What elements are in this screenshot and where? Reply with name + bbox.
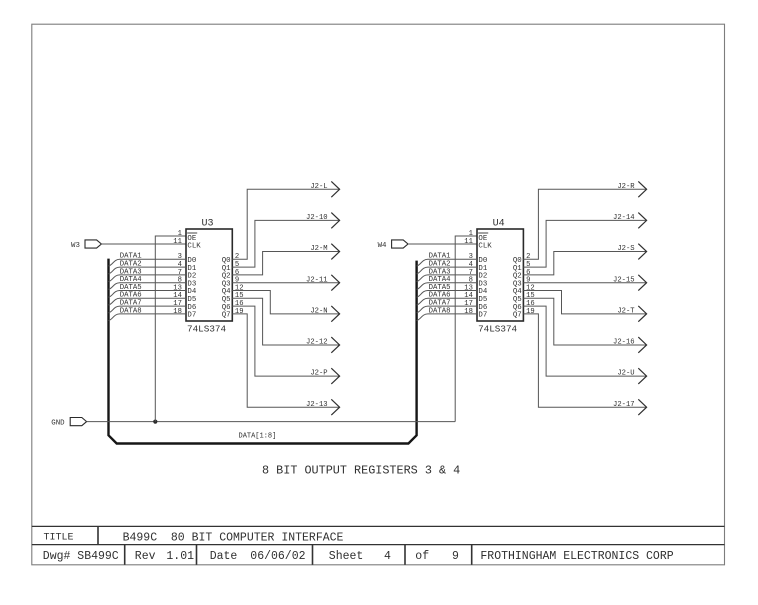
svg-text:Q1: Q1 xyxy=(222,265,231,273)
svg-text:12: 12 xyxy=(235,284,244,292)
svg-text:74LS374: 74LS374 xyxy=(187,324,226,335)
wire U3 Q1 to J2-10 xyxy=(232,220,339,267)
off-page arrow J2-11 xyxy=(331,275,339,291)
svg-text:Q6: Q6 xyxy=(513,304,522,312)
svg-text:DATA8: DATA8 xyxy=(429,307,451,315)
wire bus tap DATA7 to U4 D6 xyxy=(417,306,477,313)
svg-text:CLK: CLK xyxy=(478,243,492,251)
svg-text:DATA2: DATA2 xyxy=(429,261,451,269)
svg-text:D0: D0 xyxy=(187,257,196,265)
wire U3 Q5 to J2-12 xyxy=(232,298,339,345)
svg-text:7: 7 xyxy=(469,269,473,277)
svg-text:J2-N: J2-N xyxy=(310,307,327,315)
svg-text:D0: D0 xyxy=(478,257,487,265)
svg-text:J2-11: J2-11 xyxy=(306,276,328,284)
svg-text:6: 6 xyxy=(526,269,530,277)
svg-text:Sheet: Sheet xyxy=(329,550,364,563)
svg-text:4: 4 xyxy=(469,261,473,269)
wire U4 Q2 to J2-S xyxy=(523,252,646,275)
svg-text:D1: D1 xyxy=(478,265,487,273)
svg-text:74LS374: 74LS374 xyxy=(478,324,517,335)
svg-text:J2-16: J2-16 xyxy=(613,339,635,347)
svg-text:DATA4: DATA4 xyxy=(120,276,143,284)
svg-text:J2-10: J2-10 xyxy=(306,214,328,222)
off-page arrow J2-16 xyxy=(638,337,646,353)
svg-text:J2-T: J2-T xyxy=(617,307,635,315)
IC U4 74LS374 body xyxy=(477,229,523,321)
svg-text:14: 14 xyxy=(173,292,182,300)
svg-text:DATA1: DATA1 xyxy=(429,253,452,261)
off-page arrow J2-P xyxy=(331,368,339,384)
svg-text:D4: D4 xyxy=(187,288,196,296)
svg-text:13: 13 xyxy=(464,284,473,292)
svg-text:D6: D6 xyxy=(187,304,196,312)
svg-text:1: 1 xyxy=(469,230,473,238)
svg-text:Dwg# SB499C: Dwg# SB499C xyxy=(43,550,119,563)
svg-text:Q1: Q1 xyxy=(513,265,522,273)
svg-text:1.01: 1.01 xyxy=(166,550,194,563)
svg-text:DATA[1:8]: DATA[1:8] xyxy=(239,432,277,440)
svg-text:9: 9 xyxy=(526,277,530,285)
svg-text:DATA1: DATA1 xyxy=(120,253,143,261)
svg-text:DATA4: DATA4 xyxy=(429,276,452,284)
wire U3 Q3 to J2-11 xyxy=(232,282,339,284)
wire U3 Q6 to J2-P xyxy=(232,306,339,376)
svg-text:7: 7 xyxy=(178,269,182,277)
svg-text:DATA2: DATA2 xyxy=(120,261,142,269)
wire bus tap DATA4 to U4 D3 xyxy=(417,283,477,290)
wire U4 Q6 to J2-U xyxy=(523,306,646,376)
title block lines xyxy=(32,526,725,544)
svg-text:Q2: Q2 xyxy=(222,273,231,281)
svg-text:D1: D1 xyxy=(187,265,196,273)
svg-text:U3: U3 xyxy=(202,218,214,229)
wire bus tap DATA4 to U3 D3 xyxy=(109,283,187,290)
svg-text:Q7: Q7 xyxy=(513,312,522,320)
off-page arrow J2-17 xyxy=(638,399,646,415)
svg-text:J2-M: J2-M xyxy=(310,245,327,253)
svg-text:U4: U4 xyxy=(493,218,505,229)
svg-text:J2-13: J2-13 xyxy=(306,401,328,409)
svg-text:J2-17: J2-17 xyxy=(613,401,635,409)
svg-text:D5: D5 xyxy=(478,296,487,304)
svg-text:Q4: Q4 xyxy=(513,288,522,296)
svg-text:J2-12: J2-12 xyxy=(306,339,328,347)
svg-text:FROTHINGHAM ELECTRONICS CORP: FROTHINGHAM ELECTRONICS CORP xyxy=(480,550,673,563)
svg-text:OE: OE xyxy=(478,235,487,243)
svg-text:Rev: Rev xyxy=(135,550,156,563)
wire bus tap DATA1 to U4 D0 xyxy=(417,259,477,266)
svg-text:OE: OE xyxy=(187,235,196,243)
wire W3 to U3 CLK xyxy=(101,243,186,245)
svg-text:Q2: Q2 xyxy=(513,273,522,281)
svg-text:D5: D5 xyxy=(187,296,196,304)
wire U4 Q7 to J2-17 xyxy=(523,314,646,407)
svg-text:DATA6: DATA6 xyxy=(429,292,451,300)
svg-text:Q4: Q4 xyxy=(222,288,231,296)
wire U4 Q3 to J2-15 xyxy=(523,282,646,284)
off-page arrow J2-12 xyxy=(331,337,339,353)
svg-text:B499C 80 BIT COMPUTER INTERFA: B499C 80 BIT COMPUTER INTERFACE xyxy=(123,532,344,545)
connector GND flag xyxy=(70,418,86,426)
svg-text:J2-14: J2-14 xyxy=(613,214,635,222)
svg-text:DATA3: DATA3 xyxy=(429,268,451,276)
off-page arrow J2-L xyxy=(331,181,339,197)
junction dot GND / U3 OE branch xyxy=(153,420,157,424)
svg-text:D3: D3 xyxy=(187,280,196,288)
off-page arrow J2-13 xyxy=(331,399,339,415)
wire U4 Q4 to J2-T xyxy=(523,291,646,314)
svg-text:TITLE: TITLE xyxy=(44,533,74,544)
svg-text:8: 8 xyxy=(469,277,473,285)
off-page arrow J2-N xyxy=(331,306,339,322)
wire bus tap DATA5 to U4 D4 xyxy=(417,291,477,298)
svg-text:J2-P: J2-P xyxy=(310,370,327,378)
svg-text:17: 17 xyxy=(464,300,473,308)
svg-text:DATA3: DATA3 xyxy=(120,268,142,276)
svg-text:Q3: Q3 xyxy=(222,280,231,288)
svg-text:5: 5 xyxy=(235,261,239,269)
off-page arrow J2-14 xyxy=(638,213,646,229)
IC U3 74LS374 body xyxy=(186,229,232,321)
svg-text:CLK: CLK xyxy=(187,243,201,251)
svg-text:D7: D7 xyxy=(478,312,487,320)
svg-text:D2: D2 xyxy=(478,273,487,281)
wire bus tap DATA7 to U3 D6 xyxy=(109,306,187,313)
svg-text:D3: D3 xyxy=(478,280,487,288)
svg-text:17: 17 xyxy=(173,300,182,308)
wire U4 Q5 to J2-16 xyxy=(523,298,646,345)
svg-text:9: 9 xyxy=(235,277,239,285)
svg-text:5: 5 xyxy=(526,261,530,269)
wire bus tap DATA5 to U3 D4 xyxy=(109,291,187,298)
svg-text:3: 3 xyxy=(178,253,182,261)
svg-text:4: 4 xyxy=(178,261,182,269)
wire GND horizontal run xyxy=(87,421,456,423)
svg-text:11: 11 xyxy=(173,238,182,246)
svg-text:1: 1 xyxy=(178,230,182,238)
svg-text:Q0: Q0 xyxy=(513,257,522,265)
off-page arrow J2-M xyxy=(331,244,339,260)
svg-text:J2-S: J2-S xyxy=(617,245,634,253)
svg-text:Q7: Q7 xyxy=(222,312,231,320)
svg-text:3: 3 xyxy=(469,253,473,261)
svg-text:9: 9 xyxy=(452,550,459,563)
svg-text:D4: D4 xyxy=(478,288,487,296)
off-page arrow J2-R xyxy=(638,181,646,197)
svg-text:8: 8 xyxy=(178,277,182,285)
wire bus tap DATA3 to U4 D2 xyxy=(417,275,477,282)
svg-text:19: 19 xyxy=(235,308,244,316)
svg-text:DATA5: DATA5 xyxy=(429,284,451,292)
svg-text:2: 2 xyxy=(235,253,239,261)
wire bus tap DATA3 to U3 D2 xyxy=(109,275,187,282)
wire bus tap DATA6 to U4 D5 xyxy=(417,298,477,305)
svg-text:Q6: Q6 xyxy=(222,304,231,312)
svg-text:Q5: Q5 xyxy=(222,296,231,304)
svg-text:16: 16 xyxy=(235,300,244,308)
svg-text:of: of xyxy=(415,550,429,563)
wire bus tap DATA8 to U4 D7 xyxy=(417,314,477,321)
svg-text:D2: D2 xyxy=(187,273,196,281)
off-page arrow J2-S xyxy=(638,244,646,260)
wire bus tap DATA6 to U3 D5 xyxy=(109,298,187,305)
wire bus tap DATA2 to U4 D1 xyxy=(417,267,477,274)
bus DATA[1:8] xyxy=(109,259,417,444)
svg-text:DATA6: DATA6 xyxy=(120,292,142,300)
connector W4 flag xyxy=(392,240,408,248)
svg-text:13: 13 xyxy=(173,284,182,292)
svg-text:14: 14 xyxy=(464,292,473,300)
off-page arrow J2-15 xyxy=(638,275,646,291)
svg-text:4: 4 xyxy=(384,550,391,563)
svg-text:19: 19 xyxy=(526,308,535,316)
wire bus tap DATA8 to U3 D7 xyxy=(109,314,187,321)
connector W3 flag xyxy=(85,240,101,248)
svg-text:W3: W3 xyxy=(71,242,80,250)
svg-text:18: 18 xyxy=(173,308,182,316)
wire U3 Q7 to J2-13 xyxy=(232,314,339,407)
svg-text:DATA8: DATA8 xyxy=(120,307,142,315)
svg-text:Q3: Q3 xyxy=(513,280,522,288)
svg-text:Q5: Q5 xyxy=(513,296,522,304)
off-page arrow J2-T xyxy=(638,306,646,322)
svg-text:DATA5: DATA5 xyxy=(120,284,142,292)
svg-text:J2-R: J2-R xyxy=(617,183,635,191)
wire U4 Q1 to J2-14 xyxy=(523,220,646,267)
svg-text:8 BIT OUTPUT REGISTERS 3 & 4: 8 BIT OUTPUT REGISTERS 3 & 4 xyxy=(262,463,460,477)
wire bus tap DATA2 to U3 D1 xyxy=(109,267,187,274)
off-page arrow J2-10 xyxy=(331,213,339,229)
svg-text:J2-U: J2-U xyxy=(617,370,634,378)
wire U3 Q0 to J2-L xyxy=(232,189,339,259)
wire bus tap DATA1 to U3 D0 xyxy=(109,259,187,266)
svg-text:Date: Date xyxy=(210,550,238,563)
svg-text:06/06/02: 06/06/02 xyxy=(250,550,305,563)
svg-text:DATA7: DATA7 xyxy=(120,300,142,308)
svg-text:J2-L: J2-L xyxy=(310,183,327,191)
svg-text:12: 12 xyxy=(526,284,535,292)
wire U4 Q0 to J2-R xyxy=(523,189,646,259)
wire W4 to U4 CLK xyxy=(408,243,477,245)
wire U4 OE to GND xyxy=(455,236,477,422)
wire U3 Q4 to J2-N xyxy=(232,291,339,314)
svg-text:15: 15 xyxy=(235,292,244,300)
svg-text:18: 18 xyxy=(464,308,473,316)
svg-text:11: 11 xyxy=(464,238,473,246)
svg-text:6: 6 xyxy=(235,269,239,277)
svg-text:16: 16 xyxy=(526,300,535,308)
off-page arrow J2-U xyxy=(638,368,646,384)
wire U3 Q2 to J2-M xyxy=(232,252,339,275)
svg-text:2: 2 xyxy=(526,253,530,261)
svg-text:J2-15: J2-15 xyxy=(613,276,635,284)
svg-text:15: 15 xyxy=(526,292,535,300)
svg-text:D6: D6 xyxy=(478,304,487,312)
svg-text:W4: W4 xyxy=(378,242,387,250)
svg-text:GND: GND xyxy=(51,420,65,428)
wire U3 OE to GND xyxy=(155,236,186,422)
svg-text:D7: D7 xyxy=(187,312,196,320)
svg-text:DATA7: DATA7 xyxy=(429,300,451,308)
svg-text:Q0: Q0 xyxy=(222,257,231,265)
